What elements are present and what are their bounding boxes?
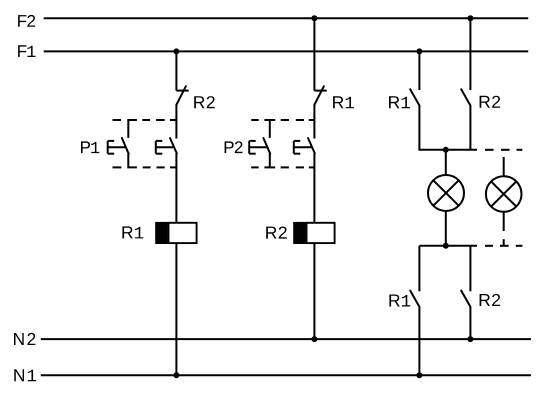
contact R2 NO (lamp branch bottom) bbox=[461, 291, 470, 307]
contact R1 NO (lamp branch top) bbox=[410, 89, 419, 105]
wire lamp1 top lead bbox=[445, 150, 447, 175]
label P1 bbox=[81, 141, 99, 153]
node junction dot branch2-F2 bbox=[311, 15, 317, 21]
label R1 lamp top bbox=[389, 96, 410, 108]
relay coil R1 bbox=[155, 222, 196, 244]
wire N2 rail bbox=[41, 338, 531, 340]
lamp L2 bbox=[486, 176, 522, 212]
pushbutton P1 NO contact main (branch 1) bbox=[156, 138, 177, 154]
wire branch2 F2 to contact R1 bbox=[313, 18, 315, 90]
wire branch2 P2 to coil R2 bbox=[313, 153, 315, 222]
contact R2 NC (branch 1) bbox=[176, 86, 188, 105]
wire lamp rail bottom bbox=[419, 245, 477, 247]
wire branch1 contact R2 to P1 bbox=[175, 105, 177, 139]
label R1 lamp bottom bbox=[389, 295, 410, 307]
wire branch4 contact to N2 bbox=[469, 307, 471, 339]
label R2 coil bbox=[266, 227, 287, 239]
pushbutton P2 NO contact main (branch 2) bbox=[294, 138, 315, 154]
wire P2 mechanical linkage top dashed bbox=[251, 119, 314, 121]
node junction dot branch1-N1 bbox=[173, 372, 179, 378]
pushbutton P2 second contact (left pole) bbox=[249, 120, 275, 167]
wire lamp1 bottom lead bbox=[445, 211, 447, 246]
node junction dot branch2-N2 bbox=[311, 336, 317, 342]
label R1 contact branch2 bbox=[333, 96, 354, 108]
wire P1 mechanical linkage bottom dashed bbox=[113, 166, 177, 168]
node junction dot branch3-F1 bbox=[416, 48, 422, 54]
node junction dot branch4-F2 bbox=[467, 15, 473, 21]
relay coil R2 bbox=[293, 222, 334, 244]
wire lamp2 bottom lead dashed bbox=[503, 212, 505, 246]
wire lamp2 top lead dashed bbox=[503, 157, 505, 176]
label R1 coil bbox=[122, 226, 143, 238]
wire P2 mechanical linkage bottom dashed bbox=[251, 166, 314, 168]
node junction dot branch1-F1 bbox=[173, 48, 179, 54]
wire lamp rail bottom dashed extension bbox=[485, 245, 522, 247]
contact R2 NO (lamp branch top) bbox=[461, 89, 470, 105]
wire branch1 coil R1 to N1 bbox=[175, 244, 177, 375]
node junction dot lamp rail bottom bbox=[443, 243, 449, 249]
wire branch2 coil R2 to N2 bbox=[313, 244, 315, 339]
wire branch3 contact to lamp rail top bbox=[419, 106, 477, 150]
wire branch3 rail to contact R1 bottom bbox=[418, 246, 420, 291]
wire P1 mechanical linkage top dashed bbox=[113, 119, 177, 121]
wire branch2 contact R1 to P2 bbox=[313, 105, 315, 139]
label R2 lamp bottom bbox=[480, 294, 501, 306]
wire branch1 P1 to coil R1 bbox=[175, 153, 177, 222]
wire N1 rail bbox=[41, 374, 531, 376]
wire branch1 F1 to contact R2 bbox=[175, 51, 177, 90]
label R2 contact branch1 bbox=[194, 96, 215, 108]
wire branch4 contact to lamp rail top bbox=[469, 106, 471, 150]
wire branch4 rail to contact R2 bottom bbox=[469, 246, 471, 291]
contact R1 NC (branch 2) bbox=[314, 86, 326, 105]
node F1 label bbox=[18, 45, 35, 57]
lamp L1 bbox=[428, 175, 464, 211]
wire branch3 contact to N1 bbox=[418, 307, 420, 375]
node N1 label bbox=[14, 369, 36, 381]
wire lamp rail top dashed extension bbox=[485, 149, 522, 151]
node junction dot branch3-N1 bbox=[416, 372, 422, 378]
wire branch3 F1 to contact R1 top bbox=[418, 51, 420, 90]
wire F1 rail bbox=[44, 50, 529, 52]
contact R1 NO (lamp branch bottom) bbox=[410, 291, 419, 307]
pushbutton P1 second contact (left pole) bbox=[108, 120, 137, 167]
label R2 lamp top bbox=[480, 96, 501, 108]
node N2 label bbox=[14, 333, 35, 345]
node junction dot lamp rail top bbox=[443, 147, 449, 153]
wire F2 rail bbox=[44, 17, 529, 19]
node junction dot branch4-N2 bbox=[467, 336, 473, 342]
wire branch4 F2 to contact R2 top bbox=[469, 18, 471, 90]
node F2 label bbox=[18, 15, 35, 27]
label P2 bbox=[225, 141, 243, 153]
